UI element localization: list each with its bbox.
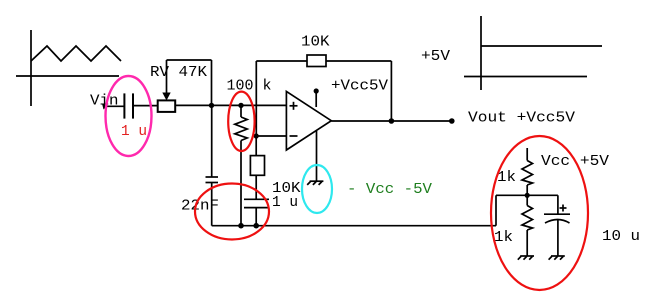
svg-text:Vin: Vin bbox=[90, 93, 119, 110]
wire RV end down to node A bbox=[211, 60, 213, 105]
wire RV to node A and on to op-amp + input bbox=[176, 104, 286, 106]
resistor R4 1k zigzag bbox=[522, 161, 533, 186]
ground symbol under R5 bbox=[520, 255, 534, 257]
wire C4 to ground bbox=[557, 220, 559, 256]
wire inverting node to op-amp - input bbox=[256, 135, 286, 137]
svg-text:10 u: 10 u bbox=[602, 228, 640, 245]
svg-text:RV 47K: RV 47K bbox=[150, 64, 207, 81]
op-amp output wire bbox=[331, 120, 452, 122]
wire C1 to potentiometer RV bbox=[133, 105, 158, 107]
feedback wire down to output bbox=[390, 61, 392, 121]
potentiometer RV 47K body bbox=[158, 100, 176, 112]
junction dot node B bbox=[525, 193, 530, 198]
output waveform high level line bbox=[481, 45, 602, 47]
svg-text:100 k: 100 k bbox=[227, 78, 272, 95]
junction dot inverting node bbox=[254, 133, 259, 138]
wire node B right to capacitor C4 bbox=[527, 194, 558, 196]
junction dot R1 bottom rail bbox=[238, 223, 244, 229]
svg-text:+Vcc5V: +Vcc5V bbox=[331, 78, 388, 95]
wire R2 to capacitor C3 1u bbox=[255, 175, 257, 199]
capacitor C4 10u top plate bbox=[544, 213, 570, 215]
output waveform low level line bbox=[464, 76, 587, 78]
resistor R1 100 k zigzag bbox=[235, 117, 247, 141]
ground symbol at op-amp V- bbox=[310, 180, 324, 182]
junction dot output feedback bbox=[389, 118, 395, 124]
input waveform plot horizontal axis bbox=[16, 75, 119, 77]
ground symbol under C4 bbox=[551, 255, 565, 257]
svg-text:+5V: +5V bbox=[421, 48, 450, 65]
cursor arrow near Vin bbox=[102, 104, 108, 110]
svg-text:Vout +Vcc5V: Vout +Vcc5V bbox=[468, 110, 575, 127]
wiper arrow stem of RV bbox=[166, 60, 168, 93]
junction dot V+ pin bbox=[314, 88, 319, 93]
annotation ellipse (red) around divider bbox=[491, 136, 588, 290]
wire R5 to ground bbox=[526, 230, 528, 256]
divider top stub from Vcc bbox=[526, 148, 528, 161]
resistor R2 10K body bbox=[250, 156, 264, 176]
svg-text:22nF: 22nF bbox=[181, 198, 219, 215]
wire riser from bottom rail to node B bbox=[495, 195, 497, 225]
svg-text:- Vcc -5V: - Vcc -5V bbox=[347, 181, 432, 198]
op-amp - input marker bbox=[290, 135, 298, 137]
wire R4 to node B bbox=[526, 185, 528, 206]
capacitor C3 1u bbox=[244, 198, 269, 200]
bottom rail wire bbox=[212, 225, 496, 227]
op-amp V- supply pin bbox=[316, 131, 318, 181]
wire inverting node down to resistor R2 10K bbox=[255, 136, 257, 156]
wire node B left bbox=[496, 194, 527, 196]
wiper arrowhead of RV bbox=[162, 93, 170, 101]
wire node A down through resistor R1 100k bbox=[240, 105, 242, 117]
plus marker of C4 bbox=[560, 207, 567, 209]
wire C3 to bottom rail bbox=[255, 208, 257, 226]
svg-text:1k: 1k bbox=[497, 169, 516, 186]
capacitor C2 22nF bbox=[206, 176, 219, 178]
input waveform plot vertical axis bbox=[30, 30, 32, 106]
capacitor C4 10u curved plate bbox=[545, 220, 570, 224]
annotation ellipse (red) around 22nF/C3 bottom bbox=[195, 184, 269, 240]
junction dot C3 bottom rail bbox=[253, 223, 259, 229]
junction dot node A bbox=[209, 103, 214, 108]
svg-text:1k: 1k bbox=[494, 229, 513, 246]
output waveform plot vertical axis bbox=[480, 16, 482, 90]
wire Vin to capacitor C1 bbox=[106, 105, 124, 107]
annotation ellipse (cyan) around ground bbox=[302, 165, 332, 213]
junction dot R1 top bbox=[238, 103, 243, 108]
resistor R3 10K feedback body bbox=[307, 55, 326, 67]
resistor R5 1k zigzag bbox=[522, 206, 533, 231]
wire down to C4 top plate bbox=[557, 195, 559, 214]
wire R1 bottom to bottom rail bbox=[240, 141, 242, 226]
op-amp + input marker bbox=[290, 105, 298, 107]
op-amp V+ supply pin bbox=[315, 91, 317, 107]
wire wiper-to-end of RV (top) bbox=[167, 59, 212, 61]
feedback wire top left segment bbox=[256, 60, 307, 62]
op-amp U1 triangle bbox=[286, 91, 331, 150]
wire 22nF down to bottom rail bbox=[211, 183, 213, 226]
svg-text:1 u: 1 u bbox=[121, 123, 147, 140]
input triangle waveform trace bbox=[31, 46, 121, 61]
terminal dot Vout bbox=[449, 118, 455, 124]
wire node A down to capacitor 22nF bbox=[211, 105, 213, 177]
feedback wire down to inverting node bbox=[255, 61, 257, 136]
svg-text:1 u: 1 u bbox=[272, 194, 298, 211]
annotation ellipse (red) around R1 bbox=[228, 92, 254, 151]
capacitor C1 1u (input coupling) bbox=[123, 93, 125, 118]
annotation ellipse (magenta) around C1 bbox=[106, 76, 152, 156]
svg-text:10K: 10K bbox=[301, 34, 330, 51]
feedback wire top right segment bbox=[326, 60, 391, 62]
